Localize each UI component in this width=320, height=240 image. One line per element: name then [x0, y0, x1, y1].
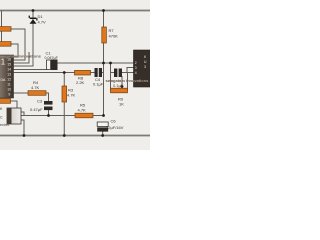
svg-text:9: 9 — [8, 93, 10, 97]
svg-text:470K: 470K — [109, 34, 119, 39]
svg-text:14: 14 — [7, 68, 11, 72]
svg-text:4: 4 — [135, 71, 137, 75]
svg-text:12: 12 — [7, 78, 11, 82]
svg-text:3: 3 — [135, 66, 137, 70]
svg-text:D1: D1 — [38, 14, 44, 19]
svg-text:C: C — [0, 116, 3, 120]
svg-text:1K: 1K — [119, 102, 124, 107]
svg-text:0.1µF: 0.1µF — [113, 83, 124, 88]
svg-text:4.7K: 4.7K — [78, 108, 87, 113]
svg-text:15: 15 — [7, 63, 11, 67]
svg-text:4.7K: 4.7K — [67, 93, 76, 98]
svg-text:1: 1 — [1, 58, 6, 67]
svg-text:R7: R7 — [109, 28, 115, 33]
svg-text:0.1µF: 0.1µF — [93, 82, 104, 87]
svg-text:0.47µF: 0.47µF — [30, 107, 43, 112]
svg-text:11: 11 — [7, 83, 11, 87]
svg-text:0.047µF: 0.047µF — [45, 56, 59, 60]
svg-text:C1: C1 — [46, 51, 52, 56]
svg-text:4.7V: 4.7V — [38, 20, 47, 25]
svg-text:ectret: ectret — [0, 123, 9, 127]
svg-text:13: 13 — [7, 73, 11, 77]
svg-text:22µF/16V: 22µF/16V — [106, 125, 124, 130]
svg-text:0A: 0A — [1, 77, 6, 82]
svg-text:2: 2 — [135, 61, 137, 65]
svg-text:4.7K: 4.7K — [31, 85, 40, 90]
svg-text:2.2K: 2.2K — [76, 80, 85, 85]
svg-text:C6: C6 — [111, 119, 117, 124]
svg-text:10: 10 — [7, 88, 11, 92]
svg-text:C3: C3 — [37, 99, 43, 104]
svg-text:3: 3 — [144, 65, 146, 69]
